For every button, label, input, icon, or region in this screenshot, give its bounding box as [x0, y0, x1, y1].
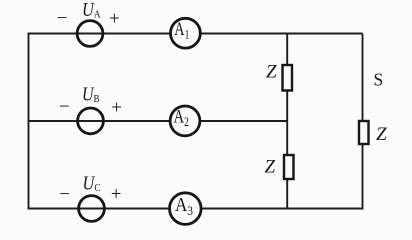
- wire: phase C bottom horizontal line: [28, 208, 364, 210]
- wire: right vertical branch with switch S: [362, 34, 364, 209]
- ammeter A1: [171, 18, 201, 48]
- impedance Z3 (box on right branch): [359, 121, 369, 144]
- impedance Z1 (upper box on middle branch): [283, 65, 293, 91]
- svg-text:S: S: [374, 70, 384, 90]
- wire: middle vertical branch (load phase leg): [286, 34, 288, 209]
- svg-text:−: −: [57, 8, 68, 29]
- impedance Z2 (lower box on middle branch): [284, 155, 294, 179]
- svg-text:+: +: [111, 184, 122, 205]
- source UB (voltage source circle, phase B): [78, 108, 104, 134]
- svg-text:UA: UA: [82, 0, 101, 21]
- wire: phase A top horizontal line: [28, 33, 363, 35]
- svg-text:Z: Z: [376, 124, 387, 145]
- svg-text:UC: UC: [83, 174, 101, 195]
- wire: phase B middle horizontal line: [28, 120, 289, 122]
- ammeter A3: [170, 193, 202, 225]
- svg-text:Z: Z: [265, 157, 276, 178]
- svg-text:UB: UB: [82, 85, 100, 106]
- svg-text:+: +: [109, 8, 120, 29]
- ammeter A2: [170, 106, 200, 136]
- svg-text:+: +: [111, 98, 122, 119]
- svg-text:Z: Z: [266, 62, 277, 83]
- svg-text:−: −: [59, 97, 70, 118]
- source UC (voltage source circle, phase C): [79, 196, 105, 222]
- wire: left vertical neutral bus: [28, 34, 30, 210]
- source UA (voltage source circle, phase A): [77, 21, 103, 47]
- svg-text:−: −: [59, 184, 70, 205]
